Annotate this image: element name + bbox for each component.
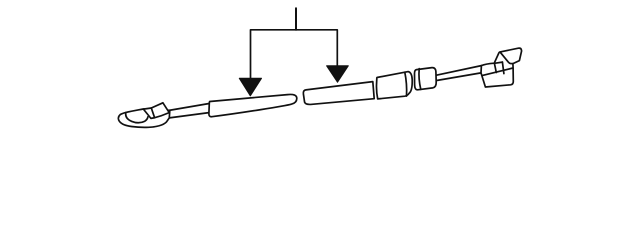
eyelet paddle [118,109,169,127]
bracket tab fold [501,53,513,64]
callout stem [295,8,297,30]
barrel [415,68,437,90]
bracket web right line [502,62,504,74]
paddle band [143,103,169,119]
rod [168,104,210,118]
bracket flange right edge [494,63,496,72]
band fold [151,108,154,118]
paddle inner curve [126,113,148,123]
conduit ring [405,72,407,96]
conduit body [376,72,412,99]
bracket outline [481,48,522,87]
callout bracket [251,30,338,79]
piece 2 sleeve [303,82,374,105]
barrel seam [419,69,421,90]
sleeve 1 [209,94,297,116]
bracket tab bottom edge [494,62,502,63]
arrowhead left [239,78,261,96]
thin cable to bracket [437,66,482,81]
arrowhead right [327,66,349,82]
bracket base top fold [483,68,513,75]
